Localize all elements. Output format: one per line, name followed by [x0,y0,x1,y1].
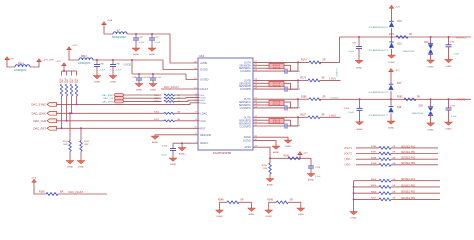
svg-text:DNI: DNI [263,168,267,170]
junction [131,59,133,61]
power flag +3V3 (bank) [62,63,67,66]
svg-text:0.1uF: 0.1uF [315,176,321,178]
wire SENSEFD [253,119,269,121]
svg-text:R171: R171 [389,34,395,36]
junction [152,73,154,75]
ground DGND [169,158,177,161]
junction [359,98,361,100]
svg-text:SENSE1-PA1: SENSE1-PA1 [401,178,416,181]
svg-text:DGND: DGND [94,81,101,83]
svg-text:PGND: PGND [298,214,305,216]
svg-text:REFIO: REFIO [200,141,208,145]
wire [390,91,392,99]
wire [181,142,183,144]
wire [288,201,301,203]
ground DGND group2 [350,212,358,215]
ground PGND [297,208,305,211]
svg-text:D17: D17 [397,83,402,85]
svg-text:+12V: +12V [394,70,400,72]
svg-text:D18: D18 [424,42,429,44]
diode D19 [390,99,392,106]
wire [356,153,379,155]
wire [356,147,379,149]
junction [66,120,68,122]
svg-text:RST: RST [200,126,206,130]
svg-text:R156: R156 [154,112,160,114]
wire [287,107,298,109]
ground AGND [178,148,186,151]
svg-text:DAC8734SPFB: DAC8734SPFB [213,151,231,155]
wire [391,158,438,160]
ground DGND [93,76,101,79]
wire channel C to VOUT2 rail [319,98,321,100]
ground DGND [149,84,157,87]
svg-text:VOUT2: VOUT2 [344,152,353,155]
svg-text:R185 0R: R185 0R [273,122,281,124]
port DAC_LDAC [47,111,57,115]
wire [390,114,392,122]
wire out node [297,80,299,89]
wire AVDD rail [127,33,170,35]
wire [391,192,440,194]
power flag +12V [389,68,394,71]
wire [287,125,298,127]
ferrite oval DAC_MOSI [115,100,124,103]
svg-text:DGND: DGND [445,129,452,131]
resistor pair R172/R173 box [269,81,284,86]
wire DVDD rail [93,59,163,61]
wire [354,180,379,182]
wire SENSEFC [253,101,269,103]
svg-text:SENSE2-PA2: SENSE2-PA2 [401,157,416,160]
svg-text:CCOMPD: CCOMPD [240,126,251,129]
svg-text:C100: C100 [145,77,151,79]
svg-text:AVDD: AVDD [200,61,207,65]
diode D16 [389,20,394,22]
svg-text:FB13: FB13 [81,55,87,58]
svg-text:R175: R175 [301,78,307,80]
wire SENSEHA [253,67,269,69]
wire CCOMPC [253,107,285,109]
capacitor C103 [359,99,361,108]
svg-text:DGND: DGND [428,67,435,69]
svg-text:I_RV1: I_RV1 [344,158,352,161]
wire CLR [57,120,165,122]
wire OUTC [253,98,298,100]
wire [391,198,440,200]
resistor R248 net-tie [219,201,227,203]
wire LDAC [57,112,165,114]
ferrite oval DAC_CLK [115,97,124,100]
wire [354,198,379,200]
wire [298,61,309,63]
resistor R160 pull-down [69,112,71,114]
wire [287,70,298,72]
wire [269,174,271,179]
svg-text:+VOUT2: +VOUT2 [456,97,467,101]
junction [448,36,450,38]
ground DGND [148,48,156,51]
wire sense join [284,120,291,126]
svg-text:SENSE1-PB1: SENSE1-PB1 [401,185,416,187]
wire [287,88,298,90]
power flag -12V [299,155,301,158]
svg-text:DAC_MISO: DAC_MISO [102,94,114,97]
resistor R165 pull-up [61,71,63,76]
resistor R191 [269,158,271,163]
wire [69,151,71,160]
ground DGND [284,140,292,143]
svg-text:U16: U16 [199,54,205,58]
wire out node [297,99,299,108]
svg-text:I_RV2: I_RV2 [329,115,337,118]
svg-text:DAC_FAULT: DAC_FAULT [164,85,179,89]
svg-text:R153: R153 [154,101,160,103]
wire [124,97,162,99]
svg-text:DGND: DGND [110,81,117,83]
svg-text:I_RV2: I_RV2 [344,164,352,167]
ground DGND [132,48,140,51]
wire sense join [284,65,291,71]
wire [175,112,200,114]
wire [69,50,79,60]
wire [63,66,65,71]
wire out node [297,62,299,71]
wire [239,201,252,203]
svg-text:C107: C107 [450,106,456,108]
svg-text:0R: 0R [322,115,325,117]
wire DGND [253,141,276,146]
wire [354,186,379,188]
svg-text:CCOMPB: CCOMPB [240,88,251,91]
junction [297,61,299,63]
ground AGND [356,122,364,125]
svg-text:SYNC: SYNC [200,103,206,105]
svg-text:AGND: AGND [356,128,363,131]
wire [356,164,379,166]
svg-text:+3V3: +3V3 [31,177,37,179]
op-amp U16 DAC8734SPFB body [198,58,253,150]
wire [175,97,200,100]
svg-text:DGND: DGND [67,166,74,168]
svg-text:DGND: DGND [428,129,435,131]
svg-text:0.1uF: 0.1uF [155,42,161,44]
ground AGND [307,174,315,177]
wire SENSEHB [253,85,269,87]
wire OUTD [253,116,298,118]
svg-text:DGND: DGND [351,217,358,219]
svg-text:DGND: DGND [133,54,140,56]
svg-text:DGND: DGND [266,216,273,218]
junction [135,33,137,35]
wire [430,115,432,123]
ferrite bead FB13 [79,58,93,60]
svg-text:600R@100M: 600R@100M [112,37,126,39]
ground AGND [272,146,280,149]
svg-text:DAC_MOSI: DAC_MOSI [102,100,114,103]
svg-text:10K: 10K [60,191,65,193]
wire IOVDD branch [131,60,133,74]
resistor pair R176/R177 box [269,100,284,105]
wire [80,151,82,160]
svg-text:SENSE2-PA1: SENSE2-PA1 [401,145,416,148]
svg-text:D16: D16 [398,21,403,23]
ground DGND [77,161,85,164]
capacitor C97 [151,34,153,38]
wire [391,153,438,155]
svg-text:I_RV1: I_RV1 [329,78,337,81]
inductor L7 [113,32,127,34]
svg-text:R169 0R: R169 0R [273,67,281,69]
svg-text:AGND: AGND [152,141,159,144]
wire to AVDD pin [170,34,198,63]
resistor R249 net-tie [269,201,277,203]
capacitor C104 [172,143,174,148]
svg-text:SENSE2-PB1: SENSE2-PB1 [401,152,416,154]
ground AGND [266,179,274,182]
wire [7,60,15,67]
svg-text:DGND: DGND [243,140,251,143]
svg-text:SENSE1-PA2: SENSE1-PA2 [401,191,416,194]
svg-text:FB14: FB14 [18,62,24,65]
capacitor C92 [358,37,360,47]
svg-text:R205: R205 [371,185,377,187]
svg-text:C103: C103 [344,108,350,110]
svg-text:IOVDD: IOVDD [124,63,132,66]
wire [104,25,113,34]
svg-text:4.7uF: 4.7uF [139,42,145,44]
capacitor C100 [152,74,154,78]
resistor pair R184/R185 box [269,118,284,123]
svg-text:0R: 0R [290,200,293,202]
wire SENSEFA [253,64,269,66]
svg-text:UCLAMP3301H.TCT: UCLAMP3301H.TCT [369,114,389,117]
svg-text:0.1uF: 0.1uF [161,155,167,157]
wire RST [57,127,200,129]
wire sense join [284,102,291,108]
wire [430,54,432,60]
svg-text:DAC_FAULT: DAC_FAULT [69,190,84,194]
svg-text:0.1uF: 0.1uF [348,112,354,114]
wire VOUT2 rail [321,98,471,100]
svg-text:0.1uF: 0.1uF [451,116,457,118]
svg-text:R157: R157 [154,119,160,121]
svg-text:DGND: DGND [149,54,156,56]
svg-text:D20: D20 [419,106,424,108]
svg-text:SMBJ12CA: SMBJ12CA [412,112,423,115]
svg-text:1000R@1M: 1000R@1M [78,63,90,65]
wire [356,158,379,160]
svg-text:R207: R207 [371,198,377,200]
wire CCOMPD [253,125,285,127]
capacitor C95 [96,60,98,65]
svg-text:4.7uF: 4.7uF [100,70,106,72]
svg-text:R158: R158 [39,191,45,193]
svg-text:AGND: AGND [273,151,280,154]
power flag +5VD [67,47,72,50]
wire [391,8,393,21]
wire SENSEHD [253,122,269,124]
svg-text:0.1uF: 0.1uF [454,54,460,56]
ferrite oval DAC_MISO [115,93,124,96]
svg-text:1000R@1M: 1000R@1M [14,70,26,72]
junction [269,157,271,159]
svg-text:0.1uF: 0.1uF [156,77,162,79]
wire [175,94,200,96]
svg-text:D15: D15 [398,44,403,46]
svg-text:0R: 0R [323,60,326,62]
svg-text:R174: R174 [301,60,307,62]
junction [96,59,98,61]
wire [391,49,393,55]
ground AGND [151,136,159,139]
svg-text:-12V: -12V [303,153,308,155]
junction [391,36,393,38]
wire REFIO [173,142,198,144]
junction [61,127,63,129]
svg-text:CCOMPC: CCOMPC [240,107,251,110]
wire [30,62,39,67]
svg-text:AGND: AGND [267,183,274,186]
wire [124,100,162,102]
svg-text:R187: R187 [301,115,307,117]
svg-text:R196: R196 [371,146,377,148]
wire [298,79,308,81]
TVS diode D18 [430,37,432,44]
svg-text:DGND: DGND [388,128,395,130]
svg-text:R197: R197 [371,152,377,154]
svg-text:DGND: DGND [388,62,395,64]
wire [391,147,438,149]
wire [320,79,341,81]
svg-text:+5V0_USB: +5V0_USB [43,59,54,61]
wire AGND [253,137,288,140]
wire to IOVDD pin [186,74,198,80]
wire REFGND [155,134,198,136]
capacitor C93 [135,34,137,38]
resistor R161 pull-down [80,127,82,129]
wire IOVDD rail [132,73,186,75]
svg-text:C104: C104 [162,145,168,147]
svg-text:DAC_CLK: DAC_CLK [103,97,114,100]
svg-text:R191: R191 [262,165,268,167]
capacitor C96 [112,60,114,65]
svg-text:R177 0R: R177 0R [273,104,281,106]
svg-text:DAC_CLR: DAC_CLR [33,119,46,123]
svg-text:DGND: DGND [78,166,85,168]
junction [430,98,432,100]
wire [391,186,440,188]
svg-text:R204: R204 [371,179,377,181]
svg-text:R152: R152 [154,98,160,100]
svg-text:DGND: DGND [216,216,223,218]
svg-text:+5VA: +5VA [107,19,113,22]
junction [151,33,153,35]
junction [112,59,114,61]
svg-text:R151: R151 [154,95,160,97]
junction [297,98,299,100]
wire AVSS [253,147,311,158]
svg-text:4.7uF: 4.7uF [116,70,122,72]
svg-text:R182: R182 [397,97,403,99]
wire [391,164,438,166]
junction [390,98,392,100]
svg-text:R206: R206 [371,191,377,193]
svg-text:R198: R198 [371,157,377,159]
ground DGND [445,122,453,125]
svg-text:AGND: AGND [248,213,255,216]
wire [34,183,46,194]
svg-text:0R: 0R [241,200,244,202]
capacitor C118 [284,87,286,92]
svg-text:+VOUT1: +VOUT1 [336,68,338,77]
svg-text:DAC_SYNC: DAC_SYNC [31,103,46,107]
capacitor C99 [448,37,450,45]
svg-text:0R: 0R [322,78,325,80]
wire SENSEHC [253,104,269,106]
ground DGND [388,55,396,58]
wire [71,96,73,113]
svg-text:+VOUT1: +VOUT1 [456,35,467,39]
ground DGND [109,76,117,79]
wire [66,96,68,121]
wire out node [297,117,299,126]
ground DGND [427,123,435,126]
svg-text:DAC_LDAC: DAC_LDAC [32,111,46,115]
wire [354,192,379,194]
ground DGND [215,210,223,213]
svg-text:R173 0R: R173 0R [273,85,281,87]
wire [76,96,78,104]
wire [391,28,393,37]
wire [61,96,63,128]
svg-text:AGND: AGND [179,152,186,155]
svg-text:DGND: DGND [136,89,143,91]
wire SYNC [57,103,200,105]
capacitor C98 [138,74,140,78]
svg-text:+3V3: +3V3 [55,61,61,63]
port DAC_CLR [47,119,57,123]
wire OUTB [253,79,298,81]
wire channel A to VOUT1 rail [319,37,340,62]
resistor R164 pull-up [66,71,68,76]
wire bank rail [62,70,77,72]
junction [358,36,360,38]
junction [448,98,450,100]
power flag +5V0_USB [37,59,42,62]
svg-text:AGND: AGND [308,178,315,181]
svg-text:AVSS: AVSS [244,146,251,149]
svg-text:+5VD: +5VD [72,45,78,47]
svg-text:LDAC: LDAC [200,111,207,115]
junction [299,157,301,159]
wire sense join [284,83,291,89]
svg-text:SENSE2-PB2: SENSE2-PB2 [401,163,416,165]
wire [298,116,308,118]
wire FAULT [161,88,200,90]
resistor R163 pull-up [71,71,73,76]
capacitor C120 [284,123,286,128]
svg-text:0R: 0R [323,96,326,98]
svg-text:0.1uF: 0.1uF [349,51,355,53]
junction [71,112,73,114]
svg-text:DNP: DNP [63,144,68,146]
junction [430,36,432,38]
ground AGND [248,208,256,211]
wire OUTA [253,61,298,63]
svg-text:CCOMPA: CCOMPA [240,70,251,73]
wire [175,100,200,101]
